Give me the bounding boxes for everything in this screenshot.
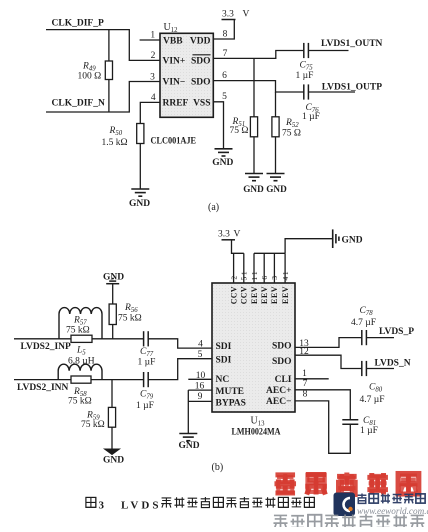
svg-text:C: C: [240, 292, 249, 298]
U12 pin name RREF: [163, 98, 189, 108]
resistor R58 75 kOhm (series in line): [71, 376, 91, 383]
svg-text:NC: NC: [216, 375, 230, 385]
U13 top pin number 2: [229, 276, 238, 280]
svg-text:1 µF: 1 µF: [302, 112, 320, 122]
wire pin 13 SDO to cap C78: [295, 338, 362, 348]
svg-text:SDO: SDO: [191, 78, 211, 88]
svg-text:3: 3: [99, 500, 105, 512]
U13 pin name VCC (pin 15): [240, 286, 249, 304]
wire pin 1 CLI stub: [295, 378, 329, 380]
U12 pin name VIN-: [163, 78, 186, 88]
wire pin 4 RREF to R50: [140, 102, 160, 123]
U13 top pin number 3: [270, 276, 279, 280]
U12 pin number 6: [222, 71, 227, 81]
value 1 uF (C75): [296, 71, 314, 81]
svg-text:LVDS2_INP: LVDS2_INP: [21, 342, 72, 352]
U13 pin name AEC- (pin8): [266, 397, 291, 407]
value 4.7 uF (C78): [351, 318, 376, 328]
resistor R51 75 Ohm (terminator on pin7 net): [250, 58, 257, 173]
value 4.7 uF (C80): [360, 395, 385, 405]
U13 pin number 12: [299, 347, 309, 357]
wire 3.3V to VCC pins 2 and 15: [232, 240, 244, 283]
value 75 kOhm (R56): [118, 314, 142, 324]
designator C77: [140, 347, 154, 358]
resistor R52 75 Ohm (terminator on pin6 net): [272, 92, 279, 174]
wire pin 5 VSS to ground: [213, 102, 223, 149]
designator U12: [164, 22, 179, 34]
svg-text:V: V: [281, 286, 290, 292]
wire LVDS2_INP line to cap C77: [14, 338, 144, 340]
svg-text:AEC+: AEC+: [266, 386, 291, 396]
net label LVDS1_OUTN: [321, 39, 383, 49]
svg-text:LVDS_P: LVDS_P: [379, 327, 414, 337]
svg-text:4: 4: [281, 276, 290, 280]
svg-text:V: V: [240, 286, 249, 292]
svg-text:E: E: [260, 293, 269, 298]
value 75 Ohm (R52): [282, 129, 301, 139]
svg-text:(b): (b): [212, 462, 224, 473]
U13 pin number 1: [302, 369, 307, 379]
U13 pin name VEE (pin 11): [250, 286, 259, 304]
svg-text:1 µF: 1 µF: [136, 401, 154, 411]
svg-text:MUTE: MUTE: [216, 387, 245, 397]
svg-text:www.eeworld.com.cn: www.eeworld.com.cn: [357, 506, 428, 516]
watermark red text (training site): [274, 472, 418, 494]
wire C77 to pin 4 SDI: [148, 339, 212, 348]
designator R57: [73, 316, 87, 327]
svg-text:SDI: SDI: [216, 342, 232, 352]
ground below R52: [266, 174, 287, 195]
svg-text:1.5 kΩ: 1.5 kΩ: [102, 138, 128, 148]
svg-text:V: V: [234, 230, 241, 240]
value 75 kOhm (R58): [68, 397, 92, 407]
value 75 kOhm (R57): [66, 326, 90, 336]
svg-text:3: 3: [150, 72, 155, 82]
svg-text:75 kΩ: 75 kΩ: [118, 314, 142, 324]
capacitor C75 1uF: [304, 43, 309, 58]
svg-text:3.3: 3.3: [222, 9, 234, 19]
U12 pin name SDO(bar) pin7: [191, 55, 211, 67]
U12 pin name VIN+: [163, 57, 186, 67]
svg-text:SDO: SDO: [272, 342, 292, 352]
U13 pin number 16: [195, 382, 205, 392]
svg-text:LVDS1_OUTN: LVDS1_OUTN: [321, 39, 383, 49]
U12 pin number 5: [222, 92, 227, 102]
svg-text:1: 1: [240, 271, 249, 275]
value label CLC001AJE: [151, 136, 197, 146]
svg-text:V: V: [250, 286, 259, 292]
svg-text:9: 9: [198, 392, 203, 402]
svg-text:GND: GND: [243, 184, 264, 194]
svg-text:VIN−: VIN−: [163, 78, 186, 88]
svg-text:2: 2: [229, 276, 238, 280]
svg-text:GND: GND: [178, 441, 199, 451]
capacitor C76 1uF: [304, 84, 309, 99]
value 1 uF (C81): [360, 426, 378, 436]
U12 pin number 4: [151, 93, 156, 103]
svg-text:3: 3: [270, 276, 279, 280]
net label CLK_DIF_N: [52, 98, 105, 108]
U13 top pin number 6: [260, 276, 269, 280]
designator C80: [369, 383, 383, 394]
wire pin 16 MUTE: [188, 389, 212, 391]
U13 top pin number 15: [240, 271, 249, 280]
designator R50: [109, 126, 123, 137]
U13 pin name VCC (pin 2): [229, 286, 238, 304]
net label CLK_DIF_P: [52, 18, 104, 28]
svg-text:GND: GND: [212, 158, 233, 168]
IC U13 LMH0024MA body: [212, 283, 295, 412]
U13 pin name NC (pin10): [216, 375, 230, 385]
ground below R51: [243, 174, 264, 195]
svg-text:1: 1: [250, 276, 259, 280]
svg-text:E: E: [281, 293, 290, 298]
U13 pin number 13: [299, 339, 309, 349]
wire CLK_DIF_P to pin 2 VIN+: [46, 30, 160, 61]
value 100 Ohm: [78, 71, 102, 81]
svg-text:1: 1: [250, 271, 259, 275]
wire pin 6 SDO to coupling cap C76: [213, 81, 303, 92]
svg-text:GND: GND: [266, 184, 287, 194]
svg-text:100 Ω: 100 Ω: [78, 71, 102, 81]
svg-text:LVDS_N: LVDS_N: [375, 359, 411, 369]
svg-text:(a): (a): [208, 202, 219, 213]
power rail 3.3 V (circuit a): [222, 9, 250, 19]
svg-text:CLK_DIF_N: CLK_DIF_N: [52, 98, 105, 108]
svg-text:8: 8: [303, 389, 308, 399]
svg-text:RREF: RREF: [163, 98, 189, 108]
U12 pin name VSS: [193, 98, 210, 108]
svg-text:CLC001AJE: CLC001AJE: [151, 136, 197, 146]
resistor R56 75 kOhm: [109, 284, 116, 339]
svg-text:CLK_DIF_P: CLK_DIF_P: [52, 18, 104, 28]
svg-text:6: 6: [260, 276, 269, 280]
U12 pin name SDO pin6: [191, 78, 211, 88]
resistor R50 1.5 kOhm: [137, 124, 144, 190]
inductor L5 6.8uH (parallel with R58): [58, 364, 102, 379]
U13 pin number 4: [198, 339, 203, 349]
wire pin 9 BYPAS: [188, 400, 212, 402]
svg-text:AEC−: AEC−: [266, 397, 291, 407]
svg-text:E: E: [250, 299, 259, 304]
ground below MUTE/BYPAS: [178, 434, 199, 452]
ground above R56: [103, 272, 124, 283]
U12 pin number 7: [223, 49, 228, 59]
value 1 uF (C79): [136, 401, 154, 411]
svg-text:VSS: VSS: [193, 98, 210, 108]
IC U12 CLC001AJE body: [160, 33, 213, 117]
svg-text:7: 7: [303, 379, 308, 389]
caption: fig 3 LVDS long-distance RX/TX circuit diagram: [86, 497, 314, 512]
ground at VSS: [212, 149, 233, 168]
svg-text:2: 2: [151, 51, 156, 61]
svg-text:C: C: [229, 298, 238, 304]
wire C81 to pin 8 AEC-: [295, 401, 350, 453]
wire LVDS2_INN line to cap C79: [14, 379, 144, 381]
svg-text:6: 6: [222, 71, 227, 81]
svg-text:GND: GND: [129, 199, 150, 209]
designator L5: [76, 345, 86, 356]
U13 pin number 8: [303, 389, 308, 399]
wire CLK_DIF_N to pin 3 VIN-: [46, 82, 160, 113]
U13 pin name SDI (pin5): [216, 356, 232, 366]
U13 pin number 10: [196, 371, 206, 381]
svg-text:4.7 µF: 4.7 µF: [351, 318, 376, 328]
value label LMH0024MA: [232, 428, 281, 438]
designator R52: [285, 118, 299, 129]
svg-text:5: 5: [240, 276, 249, 280]
net label LVDS_N: [375, 359, 411, 369]
net label LVDS2_INN: [17, 383, 69, 393]
ground (sideways) top right of U13: [333, 229, 363, 248]
svg-text:SDO: SDO: [272, 357, 292, 367]
wire MUTE/BYPAS junction down to ground: [187, 390, 189, 433]
wire 3.3V to pin 8 VDD: [213, 20, 234, 40]
resistor R59 75 kOhm: [108, 380, 115, 449]
capacitor C78 4.7uF: [362, 330, 367, 345]
watermark logo block: [334, 493, 356, 517]
designator R59: [86, 411, 100, 422]
resistor R57 75 kOhm (series in line): [71, 335, 92, 342]
svg-text:CLI: CLI: [275, 375, 292, 385]
resistor R49 100 Ohm: [105, 30, 112, 112]
value 1 uF (C76): [302, 112, 320, 122]
wire pin 7 AEC+ to cap C81: [295, 390, 350, 420]
wire VEE rail pins 11,6,3,14 to ground: [254, 239, 333, 283]
svg-text:V: V: [243, 9, 250, 19]
wire pin 12 SDO to cap C80: [295, 355, 362, 368]
net label LVDS_P: [379, 327, 414, 337]
watermark gray text (RF & antenna experts): [273, 514, 424, 528]
svg-text:E: E: [260, 299, 269, 304]
svg-text:E: E: [281, 299, 290, 304]
svg-text:3.3: 3.3: [218, 230, 230, 240]
svg-text:7: 7: [223, 49, 228, 59]
svg-text:8: 8: [223, 30, 228, 40]
svg-text:4: 4: [151, 93, 156, 103]
svg-text:1: 1: [281, 271, 290, 275]
U12 pin number 2: [151, 51, 156, 61]
U13 pin name SDI (pin4): [216, 342, 232, 352]
U13 pin name VEE (pin 6): [260, 286, 269, 304]
capacitor C77 1uF: [144, 331, 149, 346]
svg-text:V: V: [260, 286, 269, 292]
svg-text:1 µF: 1 µF: [296, 71, 314, 81]
svg-text:VIN+: VIN+: [163, 57, 186, 67]
watermark navy text (EEWorld): [358, 493, 426, 503]
svg-text:C: C: [229, 292, 238, 298]
U13 top pin number 14: [281, 271, 290, 280]
U13 pin name SDO (pin13): [272, 342, 292, 352]
wire C80 to LVDS_N: [366, 368, 394, 370]
wire C75 to LVDS1_OUTN: [308, 50, 348, 52]
U13 pin name AEC+ (pin7): [266, 386, 291, 396]
svg-text:GND: GND: [103, 455, 124, 465]
svg-text:VBB: VBB: [163, 37, 183, 47]
svg-text:75 kΩ: 75 kΩ: [81, 420, 105, 430]
svg-text:5: 5: [222, 92, 227, 102]
sub-figure label (a): [208, 202, 219, 213]
svg-text:1 µF: 1 µF: [360, 426, 378, 436]
net label LVDS2_INP: [21, 342, 72, 352]
U12 pin name VBB: [163, 37, 183, 47]
svg-text:GND: GND: [342, 236, 363, 246]
U13 pin name CLI (pin1): [275, 375, 292, 385]
U13 pin name BYPAS (pin9): [216, 399, 246, 409]
svg-text:4.7 µF: 4.7 µF: [360, 395, 385, 405]
U13 pin name VEE (pin 14): [281, 286, 290, 304]
svg-text:LVDS2_INN: LVDS2_INN: [17, 383, 69, 393]
designator C79: [140, 390, 154, 401]
svg-text:75 kΩ: 75 kΩ: [68, 397, 92, 407]
U13 pin name MUTE (pin16): [216, 387, 245, 397]
svg-text:V: V: [270, 286, 279, 292]
svg-text:BYPAS: BYPAS: [216, 399, 246, 409]
wire pin 1 VBB stub: [140, 39, 160, 41]
value 75 Ohm (R51): [230, 126, 249, 136]
svg-text:VDD: VDD: [190, 37, 211, 47]
svg-text:E: E: [270, 293, 279, 298]
value 6.8 uH: [68, 356, 95, 366]
designator C76: [306, 103, 320, 114]
designator R58: [73, 387, 87, 398]
capacitor C80 4.7uF: [362, 361, 367, 376]
value 1.5 kOhm: [102, 138, 128, 148]
capacitor C79 1uF: [144, 372, 149, 387]
wire pin 7 SDO to coupling cap C75: [213, 51, 303, 59]
designator R56: [124, 303, 138, 314]
U12 pin number 3: [150, 72, 155, 82]
svg-text:1: 1: [302, 369, 307, 379]
U12 pin number 1: [150, 31, 155, 41]
svg-text:E: E: [270, 299, 279, 304]
U12 pin number 8: [223, 30, 228, 40]
svg-text:1 µF: 1 µF: [138, 357, 156, 367]
svg-text:LVDS1_OUTP: LVDS1_OUTP: [322, 82, 383, 92]
sub-figure label (b): [212, 462, 224, 473]
ground (arrow) below R59: [103, 449, 124, 465]
svg-text:6.8 µH: 6.8 µH: [68, 356, 95, 366]
svg-text:SDI: SDI: [216, 356, 232, 366]
watermark url text: [357, 506, 428, 516]
svg-text:SDO: SDO: [191, 57, 211, 67]
wire pin 10 NC stub: [188, 378, 212, 380]
U13 pin number 5: [198, 350, 203, 360]
U12 pin name VDD: [190, 37, 211, 47]
designator C81: [363, 416, 376, 427]
svg-text:75 Ω: 75 Ω: [230, 126, 249, 136]
svg-text:C: C: [240, 298, 249, 304]
wire C78 to LVDS_P: [366, 337, 394, 339]
designator R51: [232, 117, 246, 128]
U13 pin number 7: [303, 379, 308, 389]
wire C79 to pin 5 SDI: [148, 359, 212, 380]
U13 pin name VEE (pin 3): [270, 286, 279, 304]
designator R49: [82, 61, 96, 72]
U13 pin name SDO (pin12): [272, 357, 292, 367]
designator C75: [300, 61, 314, 72]
designator U13: [251, 416, 266, 428]
wire C76 to LVDS1_OUTP: [308, 91, 355, 93]
designator C78: [360, 306, 374, 317]
svg-text:75 Ω: 75 Ω: [282, 129, 301, 139]
capacitor C81 1uF: [342, 420, 358, 425]
svg-text:1: 1: [150, 31, 155, 41]
ground below R50: [129, 189, 150, 209]
power rail 3.3 V (circuit b): [218, 230, 241, 240]
svg-text:75 kΩ: 75 kΩ: [66, 326, 90, 336]
value 1 uF (C77): [138, 357, 156, 367]
inductor (parallel with R57): [59, 308, 102, 339]
svg-text:LMH0024MA: LMH0024MA: [232, 428, 281, 438]
net label LVDS1_OUTP: [322, 82, 383, 92]
svg-text:E: E: [250, 293, 259, 298]
U13 pin number 9: [198, 392, 203, 402]
svg-text:V: V: [229, 286, 238, 292]
U13 top pin number 11: [250, 271, 259, 280]
value 75 kOhm (R59): [81, 420, 105, 430]
